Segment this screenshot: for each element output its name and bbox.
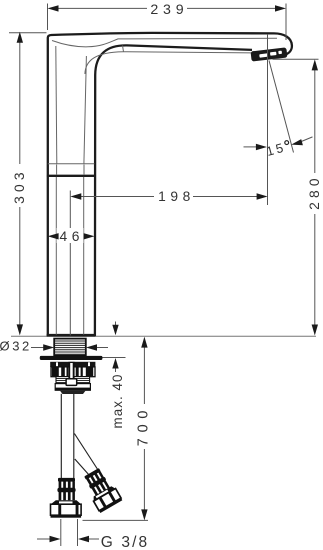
threaded shank [54, 339, 86, 356]
dim 15 deg [244, 61, 313, 153]
right crimp + nut (rotated) [81, 466, 123, 513]
left crimp fitting [57, 478, 75, 500]
svg-text:46: 46 [60, 229, 85, 244]
svg-text:G 3/8: G 3/8 [101, 534, 149, 550]
dim 239 [48, 4, 287, 41]
right hose [74, 434, 99, 476]
svg-text:280: 280 [307, 174, 322, 210]
body bottom thick line [47, 334, 96, 337]
spout top and tip [48, 33, 292, 337]
mounting plane line [11, 335, 316, 337]
joint thick line [47, 175, 96, 177]
hatch band [56, 377, 90, 384]
svg-text:303: 303 [12, 168, 27, 204]
dim 198 [70, 34, 267, 336]
flange [40, 356, 103, 360]
nut bevel [50, 362, 95, 367]
left hose [61, 394, 74, 479]
dim 303 [9, 33, 47, 325]
dim 280 [273, 59, 319, 325]
dim G 3/8 [37, 519, 99, 546]
dim 46 [59, 235, 85, 237]
svg-text:239: 239 [150, 2, 188, 18]
knurled nut [51, 367, 95, 377]
aerator [251, 47, 288, 61]
left hex nut [51, 500, 82, 518]
svg-text:700: 700 [136, 405, 152, 446]
svg-text:max. 40: max. 40 [110, 374, 125, 429]
svg-text:198: 198 [158, 189, 195, 204]
bottom block [55, 384, 91, 391]
dim 700 [83, 347, 149, 520]
faucet outline [47, 33, 292, 337]
dim 32 [31, 347, 108, 349]
thin inner lines of faucet [48, 38, 277, 334]
svg-text:Ø32: Ø32 [0, 339, 32, 354]
dim max 40 [95, 322, 126, 373]
spout underside + body right edge [95, 45, 252, 336]
under trapezoid [60, 391, 86, 394]
center rod [66, 362, 77, 386]
